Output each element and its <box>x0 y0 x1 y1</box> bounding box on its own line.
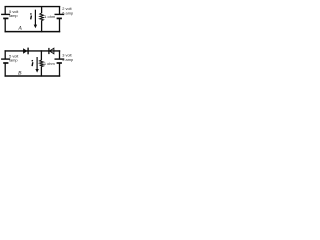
wire right edge of circuit B <box>59 50 61 76</box>
battery right of circuit B <box>55 59 65 63</box>
wire bottom of circuit B <box>5 75 61 77</box>
svg-text:lamp: lamp <box>9 58 17 63</box>
svg-text:lamp: lamp <box>9 13 17 18</box>
svg-text:1 ohm: 1 ohm <box>44 61 55 66</box>
wire top of circuit A <box>5 6 61 8</box>
battery left of circuit B <box>1 59 10 63</box>
battery left of circuit A <box>1 14 10 18</box>
resistor R 1 ohm (circuit B) <box>40 60 44 67</box>
wire middle branch of circuit A <box>41 6 43 32</box>
wire top of circuit B <box>5 50 61 52</box>
wire bottom of circuit A <box>5 31 61 33</box>
wire middle branch of circuit B <box>40 50 42 76</box>
arrow current direction (circuit B) <box>35 57 38 73</box>
svg-text:1 ohm: 1 ohm <box>44 14 55 19</box>
diode D1 (top wire B, pointing right) <box>23 48 28 55</box>
label current i (circuit B) <box>32 60 34 66</box>
svg-text:B: B <box>18 71 22 77</box>
wire left edge of circuit B <box>4 50 6 76</box>
label 3 volt 5 amp (right battery B) <box>62 52 73 62</box>
resistor R 1 ohm (circuit A) <box>40 13 44 21</box>
diode D2 (top wire B, pointing left, open) <box>49 48 54 54</box>
svg-text:5 amp: 5 amp <box>62 57 73 62</box>
wire right edge of circuit A <box>59 6 61 32</box>
label 5 volt lamp (left battery B) <box>9 54 19 63</box>
label 2 volt 6 amp (right battery A) <box>62 6 73 16</box>
label current i (circuit A) <box>30 13 32 19</box>
svg-text:A: A <box>17 26 22 32</box>
label 5 volt lamp (left battery A) <box>9 9 19 18</box>
battery right of circuit A <box>55 14 65 18</box>
svg-text:6 amp: 6 amp <box>62 10 73 15</box>
arrow current direction (circuit A) <box>34 10 37 29</box>
wire left edge of circuit A <box>4 6 6 32</box>
